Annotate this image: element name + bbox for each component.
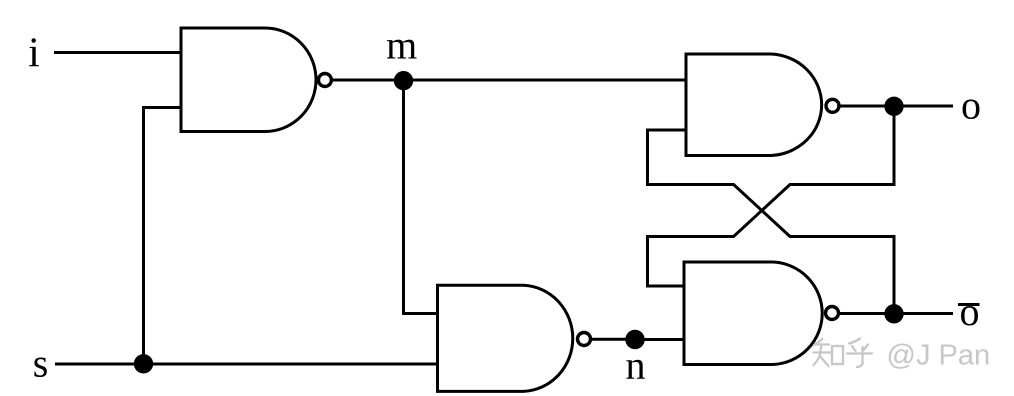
nand gate U3 [686,54,822,156]
watermark zhihu logo text [814,339,873,368]
wire feedback o to U4 input [648,106,895,286]
wire U3 output to o [839,105,953,108]
nand gate U1 [181,28,316,132]
node m [394,71,413,90]
wire m to U3 [404,79,687,82]
bubble U2 [578,333,591,346]
bubble U1 [318,74,331,87]
node o [884,97,903,116]
bubble U4 [826,307,839,320]
svg-text:o: o [961,83,981,128]
wire m branch to U2 [404,80,438,314]
wire feedback obar to U3 input [648,130,895,314]
wire s input [55,363,438,366]
nand gate U4 [684,262,822,365]
svg-text:s: s [33,341,49,386]
svg-text:@J Pan: @J Pan [887,340,991,372]
wire s branch to G1 [144,108,182,365]
wire U4 output to obar [839,312,954,315]
wire U1 output to m [332,79,405,82]
node obar [884,304,903,323]
svg-text:m: m [386,22,417,67]
bubble U3 [826,99,839,112]
node s junction [134,354,153,373]
nand gate U2 [438,285,573,391]
svg-text:i: i [28,31,40,77]
wire i input [54,51,181,54]
node n [625,330,644,349]
svg-text:n: n [626,342,646,387]
svg-text:o: o [960,289,980,334]
wire U2 output to n [591,338,636,341]
wire n to U4 [635,338,684,341]
